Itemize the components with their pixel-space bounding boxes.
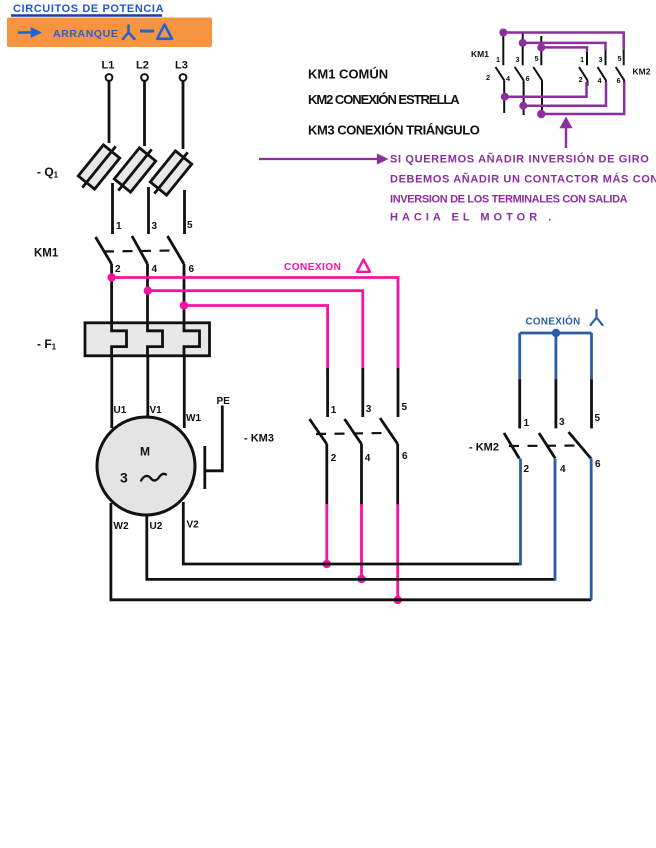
svg-text:U1: U1: [114, 405, 127, 416]
svg-text:4: 4: [506, 74, 511, 83]
svg-text:SI QUEREMOS AÑADIR INVERSIÓN D: SI QUEREMOS AÑADIR INVERSIÓN DE GIRO: [390, 153, 650, 166]
mini KM2 pole1 body: [579, 50, 588, 86]
wire KM3.6 down (magenta): [396, 504, 399, 600]
wire Q1 pole2 to KM1 pin3: [147, 187, 150, 234]
wire bus C from W2 to KM2.6: [111, 503, 592, 600]
wire star bar to KM2.5 (blue): [590, 333, 593, 381]
svg-text:3: 3: [152, 221, 158, 232]
svg-text:CONEXION: CONEXION: [284, 262, 341, 273]
CONTACTOR KM2 (star): [469, 380, 601, 476]
wire KM1 pin6 down to F1: [183, 264, 186, 324]
mini wire KM1.1 to KM2.5 (purple): [503, 33, 623, 51]
svg-text:4: 4: [598, 76, 603, 85]
MINI REVERSING DIAGRAM (purple): [471, 29, 651, 149]
fuse-switch Q1 pole 2: [110, 143, 160, 197]
wire KM2.4 to bus B (blue): [554, 459, 557, 581]
wire star bar to KM2.1 (blue): [518, 333, 521, 381]
wire KM1 pin2 down to F1: [110, 264, 113, 324]
svg-text:2: 2: [579, 75, 583, 84]
svg-text:INVERSION DE LOS TERMINALES CO: INVERSION DE LOS TERMINALES CON SALIDA: [390, 194, 628, 206]
PROTECTIVE EARTH: [205, 396, 230, 489]
svg-text:5: 5: [618, 54, 622, 63]
terminal circle L3: [180, 74, 187, 81]
KM2 OUTPUT WIRES (blue): [521, 459, 592, 600]
svg-text:- KM3: - KM3: [244, 433, 274, 445]
svg-text:M: M: [140, 445, 150, 459]
svg-text:V1: V1: [150, 405, 163, 416]
junction dot node KM1.2: [107, 273, 115, 281]
KM3 pole2 top terminal: [361, 368, 364, 417]
KM3 contact lever pole1: [310, 419, 327, 444]
svg-text:DEBEMOS AÑADIR UN CONTACTOR MÁ: DEBEMOS AÑADIR UN CONTACTOR MÁS CON: [390, 173, 656, 186]
svg-text:6: 6: [402, 451, 408, 462]
wire KM1.6 to KM3.1 (magenta): [184, 306, 328, 370]
svg-text:5: 5: [402, 402, 408, 413]
svg-text:ARRANQUE: ARRANQUE: [53, 28, 118, 40]
KM3 pole3 top terminal: [397, 368, 400, 417]
svg-text:KM2 CONEXIÓN ESTRELLA: KM2 CONEXIÓN ESTRELLA: [308, 92, 460, 107]
KM2 gang dashed line: [509, 444, 580, 447]
THERMAL RELAY F1: [37, 323, 210, 357]
wire F1 to motor U1: [110, 356, 113, 428]
wire L3 to Q1: [182, 81, 185, 149]
mini junction dot 3: [537, 43, 545, 51]
HEADER: [7, 3, 212, 47]
dash between star and delta: [140, 30, 154, 33]
PE frame bar: [203, 446, 206, 489]
svg-text:- F1: - F1: [37, 337, 57, 352]
svg-text:KM1: KM1: [34, 248, 59, 260]
svg-text:5: 5: [535, 54, 539, 63]
note arrow (purple): [259, 155, 386, 163]
svg-text:6: 6: [526, 74, 530, 83]
svg-text:CONEXIÓN: CONEXIÓN: [526, 316, 581, 328]
svg-text:1: 1: [496, 55, 500, 64]
mini junction dot 4: [501, 93, 509, 101]
MOTOR: [97, 356, 201, 532]
junction dot KM3.2 on bus A: [323, 560, 331, 568]
junction dot node KM1.4: [144, 287, 152, 295]
PE wire: [205, 406, 223, 471]
svg-text:PE: PE: [217, 396, 231, 407]
banner arrow: [18, 29, 39, 36]
wire Q1 pole1 to KM1 pin1: [111, 183, 114, 234]
svg-text:HACIA EL MOTOR .: HACIA EL MOTOR .: [390, 212, 555, 224]
F1 thermal element pole1: [112, 324, 127, 357]
terminal circle L1: [106, 74, 113, 81]
F1 body box: [85, 323, 210, 356]
wire L2 to Q1: [143, 81, 146, 146]
mini wire KM1.3 to KM2.3 (purple): [523, 43, 606, 50]
svg-text:3: 3: [516, 55, 520, 64]
svg-text:L1: L1: [102, 60, 115, 72]
KM2 pole3 top terminal: [590, 380, 593, 429]
svg-text:KM3 CONEXIÓN TRIÁNGULO: KM3 CONEXIÓN TRIÁNGULO: [308, 123, 480, 138]
KM3 pole2 bottom terminal: [360, 444, 363, 505]
svg-text:3: 3: [120, 470, 128, 486]
CONTACTOR KM1: [34, 183, 195, 324]
mini wire KM1.4 to KM2.4 bottom (purple): [523, 82, 606, 106]
KM1 contact lever pole1: [96, 237, 112, 264]
svg-text:- KM2: - KM2: [469, 442, 499, 454]
KM3 gang dashed line: [316, 433, 386, 434]
KM2 contact lever pole2: [539, 433, 555, 459]
svg-text:- Q1: - Q1: [37, 165, 59, 180]
BOTTOM BUS WIRES: [111, 502, 592, 600]
KM2 pole2 top terminal: [555, 380, 558, 429]
mini KM1 pole3 body: [533, 36, 542, 117]
svg-text:6: 6: [617, 76, 621, 85]
KM3 pole1 bottom terminal: [325, 444, 328, 505]
wire F1 to motor V1: [146, 356, 149, 420]
junction dot KM3.6 on bus C: [394, 596, 402, 604]
wire star bar to KM2.3 (blue): [555, 333, 558, 381]
svg-text:KM1: KM1: [471, 49, 489, 59]
svg-text:KM2: KM2: [633, 67, 651, 77]
KM1 gang dashed line: [104, 251, 174, 252]
svg-text:6: 6: [189, 264, 195, 275]
svg-text:1: 1: [524, 418, 530, 429]
svg-text:2: 2: [331, 453, 337, 464]
up arrow to mini diagram (purple): [562, 119, 571, 148]
svg-text:L3: L3: [175, 60, 188, 72]
mini junction dot 1: [499, 29, 507, 37]
mini junction dot 2: [519, 39, 527, 47]
svg-text:1: 1: [331, 405, 337, 416]
svg-text:3: 3: [366, 404, 372, 415]
junction dot node KM1.6: [180, 301, 188, 309]
svg-text:L2: L2: [136, 60, 149, 72]
KM3 pole3 bottom terminal: [396, 444, 399, 505]
BREAKER Q1: [37, 165, 59, 180]
svg-text:2: 2: [524, 464, 530, 475]
wire L1 to Q1: [108, 81, 111, 143]
mini KM2 pole2 body: [598, 45, 607, 86]
star symbol in banner: [123, 26, 135, 40]
mini KM2 pole3 body: [616, 35, 625, 86]
svg-text:4: 4: [365, 453, 371, 464]
svg-text:V2: V2: [187, 520, 200, 531]
KM1 contact lever pole3: [168, 236, 185, 264]
wire bus A from V2 to KM2.2: [183, 502, 521, 564]
motor tilde: [141, 474, 166, 481]
wire bus B from U2 to KM2.4: [147, 516, 555, 580]
svg-text:6: 6: [595, 459, 601, 470]
svg-text:4: 4: [152, 264, 158, 275]
wire KM1.2 to KM3.5 (magenta): [112, 278, 398, 370]
svg-text:KM1 COMÚN: KM1 COMÚN: [308, 67, 388, 82]
terminal circle L2: [141, 74, 148, 81]
svg-text:1: 1: [580, 55, 584, 64]
mini wire KM1.2 to KM2.2 bottom (purple): [505, 82, 587, 97]
junction dot KM3.4 on bus B: [357, 575, 365, 583]
svg-text:3: 3: [599, 55, 603, 64]
wire KM2.6 to bus C (blue): [590, 459, 593, 600]
wire Q1 pole3 to KM1 pin5: [183, 190, 186, 234]
wire F1 to motor W1: [183, 356, 186, 428]
mini junction dot 6: [537, 110, 545, 118]
KM2 pole1 top terminal: [518, 380, 521, 429]
KM2 contact lever pole1: [504, 433, 519, 459]
SUPPLY TERMINALS: [102, 60, 188, 150]
svg-text:1: 1: [116, 221, 122, 232]
fuse-switch Q1 pole 3: [146, 146, 196, 200]
mini wire KM1.6 to KM2.6 bottom (purple): [541, 82, 624, 114]
star symbol (blue): [591, 310, 603, 325]
svg-text:CIRCUITOS DE POTENCIA: CIRCUITOS DE POTENCIA: [13, 3, 164, 15]
mini wire KM1.5 to KM2.1 (purple): [541, 47, 587, 52]
star point junction dot: [552, 329, 560, 337]
DELTA CONNECTION WIRES (magenta): [107, 260, 398, 370]
F1 thermal element pole2: [148, 324, 163, 357]
svg-text:W2: W2: [114, 521, 129, 532]
CONTACTOR KM3 (delta): [244, 368, 408, 505]
svg-text:2: 2: [486, 73, 490, 82]
KM2 contact lever pole3: [569, 432, 592, 459]
LEGEND TEXT (black): [308, 67, 480, 138]
wire KM1.4 to KM3.3 (magenta): [148, 291, 363, 369]
delta symbol (magenta): [357, 260, 370, 272]
F1 thermal element pole3: [184, 324, 200, 357]
wire KM3.4 down (magenta): [360, 504, 363, 579]
KM3 contact lever pole3: [380, 418, 398, 444]
wire KM2.2 to bus A (blue): [519, 459, 522, 566]
wire KM3.2 down (magenta): [325, 504, 328, 564]
motor body M1: [97, 417, 195, 515]
svg-text:5: 5: [595, 413, 601, 424]
STAR CONNECTION (blue): [520, 310, 603, 381]
orange highlight banner: [7, 18, 212, 48]
svg-text:4: 4: [560, 464, 566, 475]
wire KM1 pin4 down to F1: [146, 264, 149, 324]
KM1 contact lever pole2: [132, 236, 148, 264]
svg-text:2: 2: [115, 264, 121, 275]
star point bus bar (blue): [520, 332, 592, 335]
svg-text:W1: W1: [186, 413, 201, 424]
delta symbol in banner: [157, 25, 172, 39]
KM3 pole1 top terminal: [326, 368, 329, 417]
KM3 contact lever pole2: [345, 419, 362, 444]
mini KM1 pole2 body: [515, 33, 524, 116]
svg-text:5: 5: [187, 220, 193, 231]
svg-text:U2: U2: [150, 521, 163, 532]
mini junction dot 5: [519, 102, 527, 110]
svg-text:3: 3: [559, 417, 565, 428]
title underline: [11, 14, 162, 16]
NOTE (purple): [259, 153, 656, 224]
mini KM1 pole1 body: [496, 33, 505, 114]
fuse-switch Q1 pole 1: [74, 140, 124, 194]
KM3 OUTPUT WIRES (magenta): [323, 504, 402, 604]
